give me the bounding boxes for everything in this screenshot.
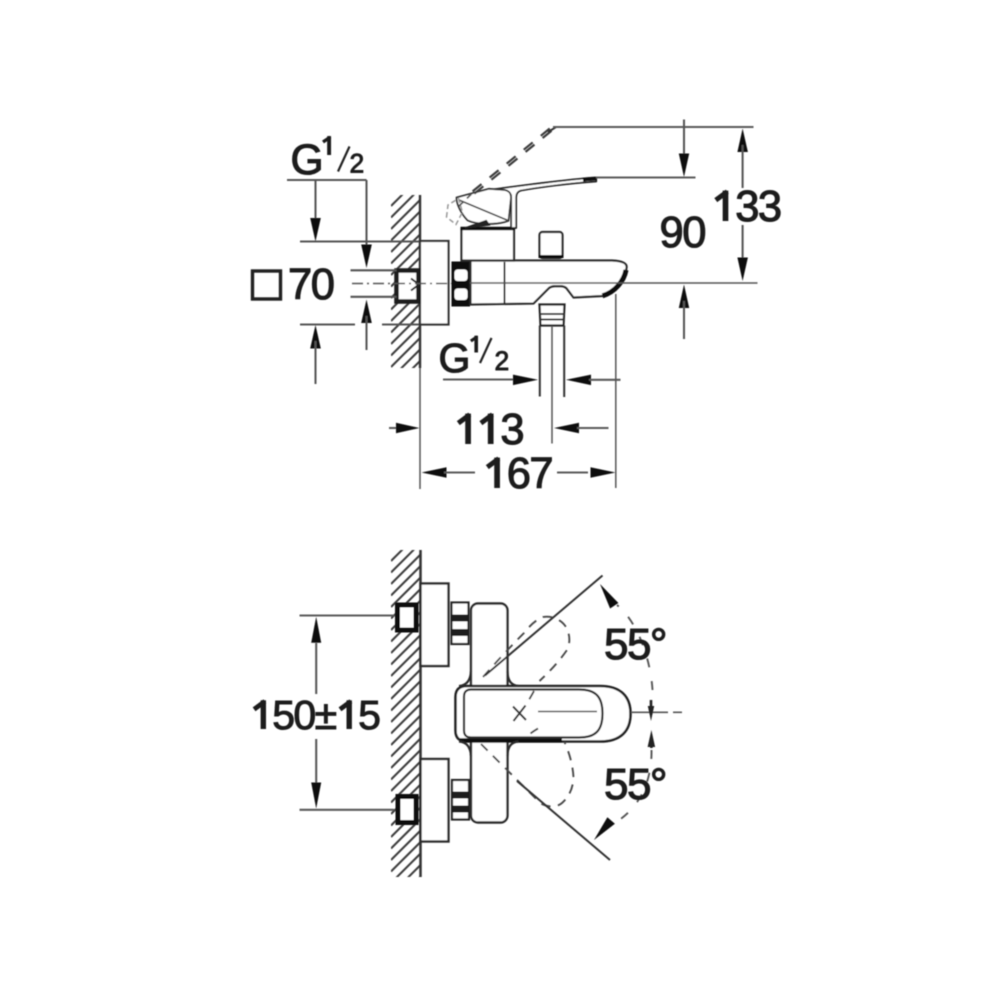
right leader with down arrow — [365, 180, 367, 252]
lever grip — [457, 189, 511, 224]
svg-text:3: 3 — [735, 183, 759, 231]
up arrow at plate bottom — [310, 325, 321, 349]
hex union nut (side view) — [452, 262, 471, 307]
hose centerline — [551, 326, 553, 444]
svg-text:5: 5 — [627, 620, 651, 669]
square-70 bottom reference line — [300, 323, 355, 325]
upper union nut (front) — [452, 603, 469, 645]
svg-text:0: 0 — [682, 209, 706, 257]
mixer body slab (front) — [471, 604, 508, 823]
spout tip dark edge — [603, 270, 627, 296]
svg-text:G: G — [439, 335, 471, 381]
pivot X marker — [513, 707, 526, 721]
svg-text:5: 5 — [604, 620, 628, 669]
lower 55 deg line — [517, 781, 610, 860]
grip diagonal line — [459, 200, 508, 221]
lever inner contour — [464, 690, 603, 738]
hose nut — [540, 305, 565, 326]
svg-text:3: 3 — [500, 406, 524, 454]
supply side lines — [351, 269, 397, 271]
wall face line (front view) — [419, 550, 422, 877]
underline — [287, 179, 367, 181]
diverter knob — [540, 232, 563, 258]
svg-text:7: 7 — [529, 450, 553, 498]
body-lever fillets — [459, 671, 471, 686]
svg-text:0: 0 — [311, 261, 335, 309]
open lever top reference line — [553, 126, 754, 128]
svg-text:°: ° — [650, 620, 668, 669]
lower supply square — [398, 797, 416, 823]
hose thread leader and arrows — [443, 378, 513, 380]
right extension line — [615, 294, 617, 488]
svg-text:°: ° — [650, 760, 668, 809]
square-70 top reference line — [300, 240, 420, 242]
dim 133 arrows — [737, 129, 748, 153]
lower rotation arc with arrowheads — [648, 730, 656, 747]
dashed handle position upper — [483, 617, 569, 681]
cartridge cap under lever — [462, 229, 515, 261]
svg-text:5: 5 — [604, 760, 628, 809]
lever centerline — [538, 711, 597, 713]
wall hatching (front view) — [391, 532, 421, 907]
svg-text:0: 0 — [293, 692, 316, 738]
dashed handle upper, part inside lever — [526, 691, 534, 705]
wall hatching (side view) — [391, 177, 420, 390]
lower wall plate — [421, 759, 449, 842]
hose tube — [539, 326, 541, 397]
svg-text:G: G — [291, 137, 324, 184]
dim 113 — [389, 427, 403, 429]
supply centerline dash-dot — [352, 283, 470, 285]
up arrow below supply — [361, 300, 372, 324]
svg-text:7: 7 — [288, 261, 312, 309]
dim 150+-15 — [300, 614, 395, 616]
square symbol — [253, 271, 281, 299]
dim 90 top arrow — [683, 120, 685, 162]
wall face line (side view) — [419, 195, 421, 368]
dashed continuation into grip — [459, 193, 473, 207]
svg-text:6: 6 — [507, 450, 531, 498]
wall face extension down to 167 dim — [419, 368, 421, 489]
lever arm (closed) — [488, 178, 596, 228]
dim 167 — [422, 467, 447, 478]
svg-text:5: 5 — [358, 692, 381, 738]
lever front view outer — [456, 686, 631, 742]
wall plate escutcheon (side view) — [420, 241, 449, 325]
lower union nut (front) — [452, 780, 469, 820]
upper 55 deg line — [485, 576, 603, 676]
arm dark tip — [583, 179, 596, 180]
upper supply square — [398, 605, 417, 630]
dim 133 text — [723, 191, 729, 221]
body + spout outline — [471, 261, 627, 305]
dim 90 bottom arrow — [679, 285, 689, 309]
upper rotation arc with arrowheads — [600, 584, 618, 609]
dashed open lever position (double dashed line) — [473, 127, 553, 193]
dark wedge under grip — [464, 220, 491, 229]
closed lever top reference line — [596, 176, 696, 178]
spout outlet reference line — [470, 282, 758, 284]
svg-text:±: ± — [315, 692, 338, 738]
dashed handle lower, part inside lever — [531, 729, 539, 734]
dashed sketch at grip front — [447, 199, 463, 225]
svg-text:9: 9 — [660, 209, 684, 257]
body/spout separator — [504, 262, 506, 303]
solid tick at dashed line top — [548, 127, 557, 132]
lever thick bottom edge — [460, 738, 562, 742]
svg-text:3: 3 — [758, 183, 782, 231]
svg-text:2: 2 — [350, 149, 365, 179]
supply fitting in wall — [397, 271, 419, 302]
left leader with down arrow — [314, 180, 316, 226]
upper wall plate — [421, 584, 449, 667]
svg-text:5: 5 — [272, 692, 295, 738]
svg-text:5: 5 — [627, 760, 651, 809]
dashed handle position lower — [481, 742, 574, 806]
svg-text:2: 2 — [495, 346, 510, 376]
